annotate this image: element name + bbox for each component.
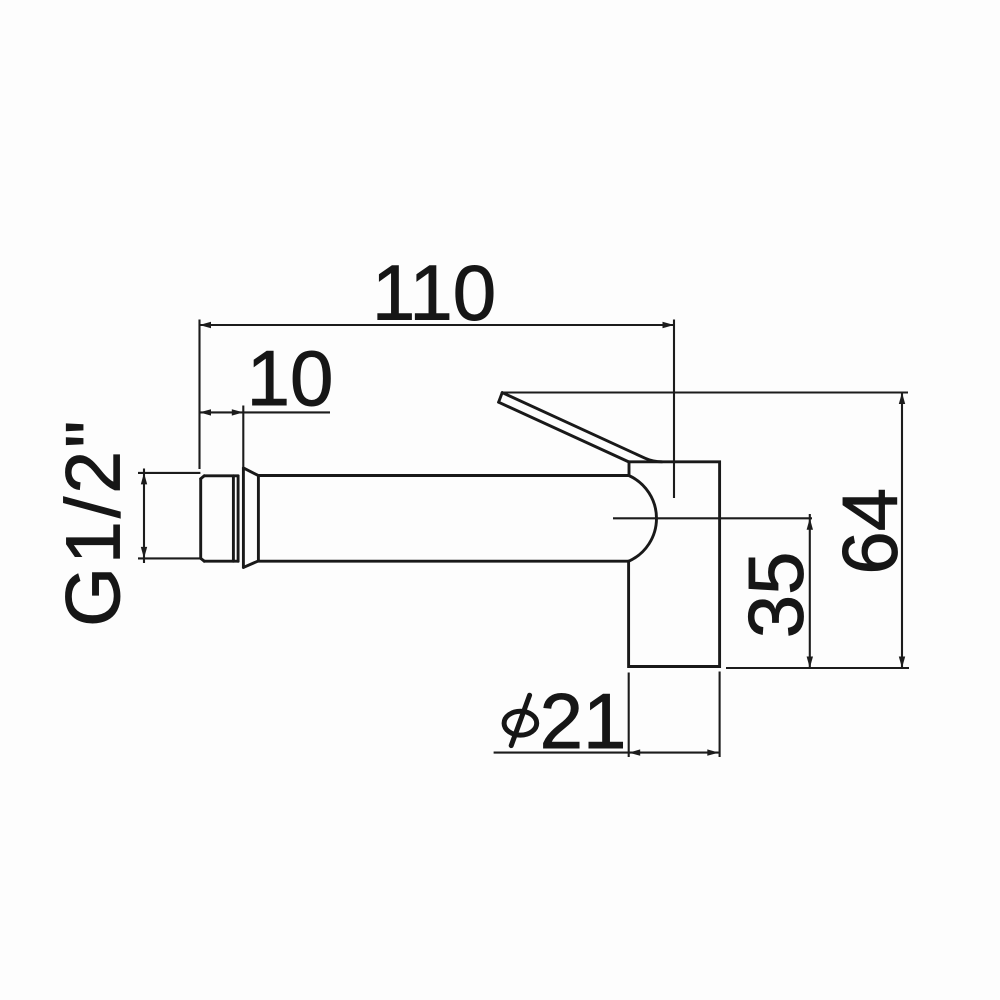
svg-text:10: 10 — [247, 334, 334, 422]
svg-text:35: 35 — [732, 552, 820, 639]
svg-text:64: 64 — [826, 488, 914, 575]
svg-text:G1/2": G1/2" — [51, 418, 137, 627]
svg-text:21: 21 — [540, 677, 627, 765]
svg-text:110: 110 — [372, 249, 496, 337]
